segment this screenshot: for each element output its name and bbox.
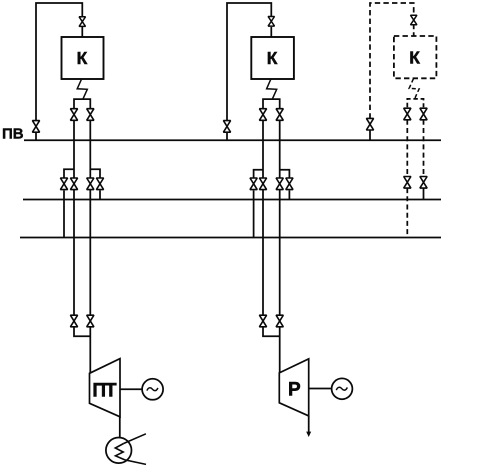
superheater zigzag unit3 (dashed) (409, 79, 419, 99)
wire unit3 pipe right (dashed) (423, 120, 425, 177)
valve unit2 turbine inlet left (double) (259, 315, 266, 327)
boiler K2 (251, 37, 294, 79)
generator G1 (142, 379, 163, 400)
wire unit3 left to bus3 (dashed) (406, 188, 408, 236)
valve unit1 branch left (double) (60, 178, 67, 190)
turbine R unit2 (279, 359, 308, 416)
wire unit1 generator link (120, 388, 142, 390)
valve unit2 feedwater (223, 121, 230, 133)
wire unit2 branch stub left (254, 170, 263, 179)
svg-text:ПТ: ПТ (92, 381, 117, 402)
wire unit3 pipe left (dashed) (406, 120, 408, 177)
valve unit2 main right row2 (double) (276, 178, 283, 190)
tilde G2 (336, 387, 347, 390)
boiler K1 (62, 37, 104, 79)
valve unit2 outlet left (double) (259, 109, 266, 121)
heater water outlet (125, 460, 146, 465)
heater water inlet (124, 434, 146, 444)
wire unit1 branch stub left (64, 169, 74, 178)
valve unit1 feedwater (32, 121, 39, 133)
wire unit1 main steam left (73, 121, 75, 315)
wire unit1 exhaust to heater (119, 417, 121, 438)
wire unit1 feedwater drop (35, 132, 37, 140)
wire unit2 top header (227, 3, 271, 121)
wire unit1 main steam right (89, 121, 91, 373)
superheater zigzag unit2 (267, 79, 277, 99)
wire unit2 branch right to bus2 (288, 190, 290, 199)
svg-text:Р: Р (288, 380, 301, 401)
valve unit2 branch left (double) (250, 178, 257, 190)
wire unit1 outlet bracket (74, 99, 90, 109)
heater circle unit1 (106, 438, 132, 464)
svg-text:ПВ: ПВ (2, 125, 24, 142)
wire unit1 branch left to bus3 (63, 190, 65, 237)
wire unit2 generator link (309, 388, 332, 390)
wire unit1 branch stub right (90, 169, 100, 178)
wire unit2 feedwater drop (226, 132, 228, 140)
svg-text:К: К (409, 47, 420, 67)
valve unit2 main left row2 (double) (259, 178, 266, 190)
svg-text:К: К (77, 48, 88, 68)
wire unit2 exhaust (308, 416, 310, 432)
valve unit2 branch right (double) (286, 178, 293, 190)
valve unit1 turbine inlet left (double) (70, 315, 77, 327)
valve unit3 outlet right (double) (420, 108, 427, 120)
valve unit1 turbine inlet right (double) (87, 315, 94, 327)
valve unit1 boiler inlet (79, 17, 85, 27)
wire unit1 merge (74, 327, 90, 336)
wire unit3 right to bus2 (423, 188, 425, 199)
wire steam bus 2 (23, 199, 441, 201)
valve unit3 left row2 (double) (404, 177, 411, 189)
wire unit3 feedwater drop (369, 130, 371, 141)
valve unit1 main right row2 (double) (87, 178, 94, 190)
heater coil zigzag (115, 444, 125, 460)
wire unit3 boiler inlet drop (dashed) (413, 25, 415, 36)
valve unit2 turbine inlet right (double) (276, 315, 283, 327)
valve unit3 outlet left (double) (404, 108, 411, 120)
valve unit1 outlet right (double) (87, 109, 94, 121)
boiler K3 (dashed) (394, 36, 437, 78)
valve unit2 outlet right (double) (276, 109, 283, 121)
arrow unit2 exhaust (306, 432, 311, 437)
wire unit3 outlet bracket (dashed) (407, 99, 423, 107)
wire steam bus 3 (20, 237, 441, 239)
valve unit1 outlet left (double) (70, 109, 77, 121)
valve unit1 main left row2 (double) (70, 178, 77, 190)
superheater zigzag unit1 (77, 79, 87, 99)
valve unit3 boiler inlet (411, 15, 417, 25)
wire unit2 outlet bracket (263, 99, 280, 109)
valve unit3 feedwater (366, 118, 373, 130)
wire unit2 main steam right (279, 121, 281, 373)
valve unit2 boiler inlet (268, 17, 274, 27)
wire unit2 branch left to bus3 (253, 190, 255, 237)
valve unit3 right row2 (double) (420, 177, 427, 189)
svg-text:К: К (267, 48, 278, 68)
wire unit2 branch stub right (280, 170, 290, 179)
wire unit2 boiler inlet drop (270, 27, 272, 37)
generator G2 (332, 378, 353, 399)
wire unit2 merge (263, 327, 280, 336)
tilde G1 (147, 388, 158, 391)
wire unit2 main steam left (262, 121, 264, 315)
wire unit1 top header (36, 3, 82, 121)
wire unit3 top header (dashed) (370, 3, 414, 119)
wire unit1 branch right to bus2 (99, 190, 101, 199)
wire unit1 boiler inlet drop (81, 27, 83, 37)
wire feedwater bus ПВ (24, 139, 441, 141)
valve unit1 branch right (double) (96, 178, 103, 190)
turbine PT unit1 (90, 359, 121, 417)
